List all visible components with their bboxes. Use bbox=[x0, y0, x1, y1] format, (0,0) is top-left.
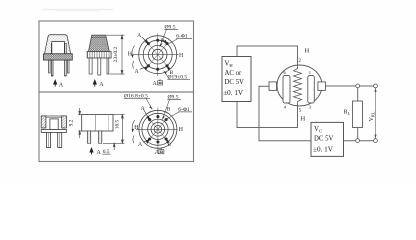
pin inner left lower bbox=[51, 60, 53, 75]
Vc source box bbox=[311, 122, 344, 156]
panel 2 frame bbox=[39, 92, 194, 162]
core bbox=[50, 119, 58, 130]
dome mesh bbox=[89, 35, 110, 51]
view arrow A (view2) bbox=[93, 80, 96, 86]
dimension 6.5 leader bbox=[113, 143, 115, 150]
core rectangle bbox=[52, 42, 65, 54]
svg-text:23±0.2: 23±0.2 bbox=[113, 46, 119, 62]
svg-text:±0. 1V: ±0. 1V bbox=[223, 89, 244, 97]
bottom wire Vc to terminals bbox=[344, 140, 374, 142]
panel 1 frame bbox=[39, 21, 194, 92]
left electrode wire to Vc bbox=[259, 86, 311, 140]
svg-text:DC 5V: DC 5V bbox=[225, 79, 245, 86]
right clip hatched bbox=[62, 116, 67, 128]
svg-text:A: A bbox=[153, 81, 158, 87]
pin stub pair 2 bbox=[99, 131, 102, 143]
svg-text:A: A bbox=[99, 82, 104, 88]
view arrow A (view1) bbox=[54, 80, 57, 86]
VRL measurement line bbox=[375, 88, 377, 139]
svg-text:A: A bbox=[59, 82, 64, 88]
base plate hatched bbox=[43, 54, 72, 60]
svg-text:RL: RL bbox=[344, 110, 351, 116]
base band bbox=[41, 130, 66, 133]
svg-text:DC 5V: DC 5V bbox=[314, 135, 334, 142]
pin stub pair 1 bbox=[88, 131, 91, 143]
right terminal block bbox=[318, 82, 326, 91]
left terminal block bbox=[269, 82, 277, 91]
electrodes bbox=[283, 76, 290, 104]
pin outer left bbox=[49, 60, 51, 73]
svg-text:1: 1 bbox=[309, 70, 311, 75]
top bar bbox=[46, 115, 62, 117]
pin outer right bbox=[68, 60, 70, 73]
view arrow A (p2 view2) bbox=[90, 148, 93, 154]
pin 3 bbox=[107, 58, 109, 74]
top wire sensor to terminals bbox=[325, 85, 373, 87]
svg-text:AC or: AC or bbox=[225, 70, 243, 77]
dimension 16.5 bbox=[103, 115, 125, 144]
legs bbox=[46, 132, 50, 147]
svg-text:VRL: VRL bbox=[369, 111, 375, 121]
sensor body bbox=[277, 65, 322, 106]
pin 2 bbox=[98, 58, 101, 75]
inner pin right tall bbox=[65, 44, 67, 77]
inner pin left tall bbox=[51, 44, 53, 77]
wires bottom : VH to sensor pin 5 bbox=[237, 102, 298, 128]
cap trapezoid bbox=[45, 35, 71, 54]
VH source box bbox=[222, 57, 251, 102]
wires top : VH to sensor pin 2 bbox=[237, 46, 298, 65]
svg-text:9.2: 9.2 bbox=[68, 119, 74, 126]
svg-text:H: H bbox=[301, 116, 306, 123]
svg-text:A: A bbox=[97, 150, 102, 156]
svg-text:16.5: 16.5 bbox=[115, 119, 121, 129]
svg-text:H: H bbox=[305, 48, 310, 55]
heater zigzag bbox=[294, 65, 302, 106]
pin inner right lower bbox=[65, 60, 67, 75]
curved arrows p2 bbox=[132, 120, 135, 143]
pin 1 bbox=[89, 58, 92, 74]
svg-text:B: B bbox=[167, 107, 171, 113]
dimension 9.2 bbox=[78, 108, 82, 138]
dimension 23±0.2 bbox=[107, 35, 125, 74]
H-H axis bbox=[134, 54, 179, 56]
svg-text:B: B bbox=[168, 142, 172, 148]
faint scan smudge bbox=[42, 9, 113, 11]
curved arrows p1 bbox=[132, 46, 135, 69]
svg-text:±0. 1V: ±0. 1V bbox=[313, 145, 334, 153]
base ring vertical hatch bbox=[87, 52, 111, 59]
pin spokes & dots bbox=[147, 34, 168, 77]
left clip hatched bbox=[41, 116, 46, 128]
RL resistor bbox=[357, 88, 359, 101]
